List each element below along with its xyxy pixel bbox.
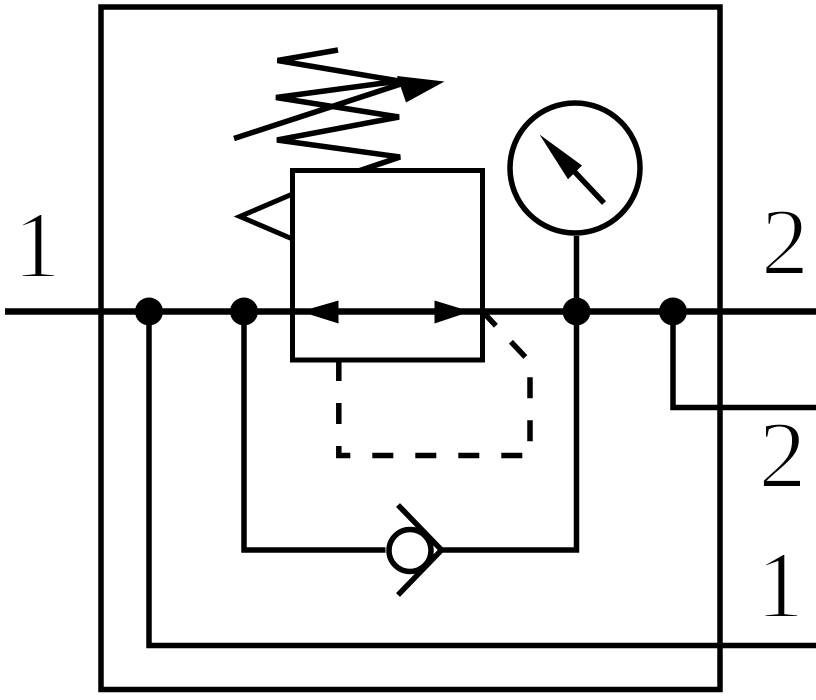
flow arrowhead pointing left inside regulator [301,301,339,324]
svg-text:2: 2 [761,189,809,295]
spring (zigzag) [276,50,400,171]
flow arrowhead pointing right inside regulator [435,301,471,324]
adjustment arrow shaft [234,83,404,139]
svg-text:1: 1 [756,532,804,638]
node B junction dot [230,298,258,326]
pilot control line (dashed) [339,312,530,456]
gauge needle arrowhead [540,135,583,180]
pressure gauge circle [510,103,640,233]
svg-text:2: 2 [759,402,807,508]
adjustment arrowhead [397,76,445,103]
wire node D to right port 2 [673,312,816,408]
enclosure box (service unit frame) [101,7,720,690]
main flow line port 1 to port 2 [5,308,816,315]
node D junction dot [659,298,687,326]
regulator body box [293,171,483,361]
gauge needle shaft [572,169,604,203]
gauge stem wire [574,236,580,312]
wire check valve to node C [442,312,577,551]
check valve seat [398,505,442,595]
manual adjustment triangle [240,194,293,239]
wire node A down to bottom port 1 [149,312,816,646]
node C junction dot [563,298,591,326]
node A junction dot [135,298,163,326]
check valve circle [389,530,431,572]
wire node B down to check valve [244,312,386,551]
svg-text:1: 1 [13,192,61,298]
